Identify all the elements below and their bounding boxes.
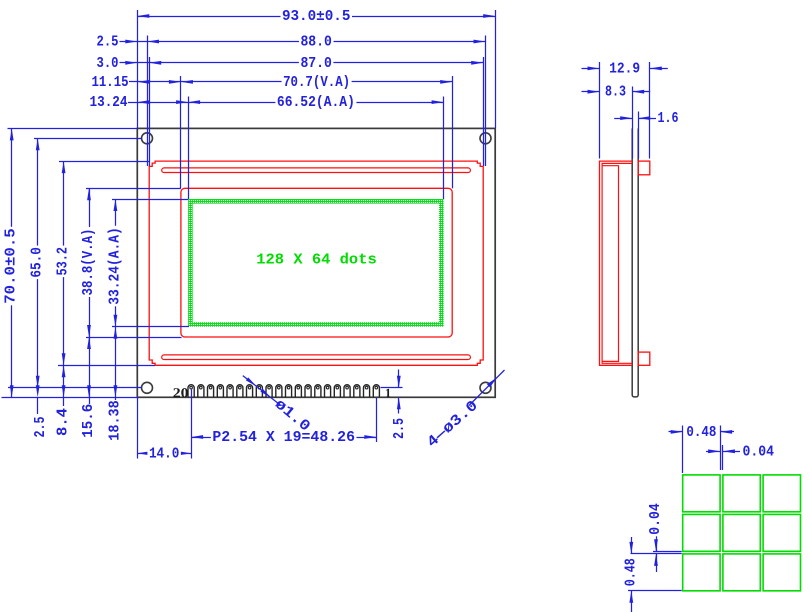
leader 4-dia 3.0 mounting holes — [424, 370, 505, 451]
extension lines left of module — [2, 129, 190, 398]
side view bezel outer profile — [600, 161, 633, 365]
dim 70.0+-0.5 overall height — [3, 128, 20, 397]
side view bezel tab bottom — [638, 352, 650, 365]
pixel detail extension lines left — [628, 552, 682, 591]
dim 2.5 pin offset right — [381, 370, 409, 440]
dim 88.0 hole spacing — [147, 34, 486, 51]
dim 93.0+-0.5 overall width — [137, 8, 495, 25]
viewing area (V.A) opening — [181, 188, 452, 337]
dot matrix pixel detail 3x3 — [683, 475, 801, 591]
dim 11.15 V.A offset — [92, 74, 181, 91]
svg-text:88.0: 88.0 — [300, 34, 332, 51]
dim 18.38 A.A to edge — [106, 327, 123, 441]
dim 0.48 dot width — [669, 424, 735, 441]
dim 33.24 A.A height — [106, 199, 123, 327]
svg-text:53.2: 53.2 — [55, 247, 72, 276]
svg-text:12.9: 12.9 — [609, 60, 640, 77]
dim 66.52 A.A width — [188, 94, 444, 111]
side view bezel lip — [602, 166, 618, 362]
dim P2.54 X 19=48.26 pin row — [191, 429, 376, 446]
leader dia 1.0 pin hole — [243, 376, 314, 436]
dim 53.2 bezel height — [55, 161, 72, 365]
active area (A.A) dotted border — [188, 199, 444, 327]
svg-text:8.3: 8.3 — [605, 84, 626, 101]
svg-text:33.24(A.A): 33.24(A.A) — [106, 227, 123, 305]
dim 12.9 overall thickness — [582, 60, 668, 77]
svg-text:3.0: 3.0 — [97, 55, 119, 72]
pin label 20 — [173, 385, 189, 400]
dim 3.0 bezel offset — [97, 55, 150, 72]
LCD module PCB outline — [137, 128, 495, 397]
svg-text:13.24: 13.24 — [90, 94, 128, 111]
svg-text:11.15: 11.15 — [92, 74, 129, 91]
mounting hole bottom-left — [142, 382, 153, 393]
side view bezel tab top — [638, 161, 650, 175]
svg-text:8.4: 8.4 — [55, 408, 72, 436]
svg-text:14.0: 14.0 — [149, 445, 180, 462]
svg-text:0.48: 0.48 — [622, 558, 639, 586]
svg-text:38.8(V.A): 38.8(V.A) — [80, 229, 97, 296]
display text 128 X 64 dots — [256, 251, 377, 268]
extension lines above module — [138, 10, 496, 199]
pixel detail extension lines top — [683, 426, 723, 474]
dim 2.5 hole offset — [97, 34, 148, 51]
mounting hole bottom-right — [480, 382, 491, 393]
svg-text:0.04: 0.04 — [743, 443, 775, 460]
dim 2.5 bottom hole offset — [32, 385, 49, 437]
svg-text:93.0±0.5: 93.0±0.5 — [282, 8, 351, 25]
side view extension lines — [600, 62, 650, 159]
svg-text:70.7(V.A): 70.7(V.A) — [283, 74, 350, 91]
svg-text:2.5: 2.5 — [97, 34, 119, 51]
dim 1.6 PCB thickness — [614, 110, 678, 127]
svg-text:0.48: 0.48 — [686, 424, 716, 441]
svg-text:66.52(A.A): 66.52(A.A) — [277, 94, 355, 111]
dim 0.48 dot height — [622, 537, 639, 612]
bezel top slot — [162, 168, 471, 173]
dim 14.0 first pin offset — [137, 445, 191, 462]
mounting hole top-left — [142, 133, 153, 144]
pin label 1 — [385, 386, 391, 400]
dim 70.7 V.A width — [181, 74, 452, 91]
side view bezel inner profile — [602, 163, 632, 363]
svg-text:15.6: 15.6 — [80, 404, 97, 438]
dim 38.8 V.A height — [80, 188, 97, 337]
dim 15.6 V.A to edge — [80, 337, 97, 438]
dim 65.0 hole spacing vertical — [29, 138, 46, 387]
dim 13.24 A.A offset — [90, 94, 189, 111]
svg-text:2.5: 2.5 — [391, 418, 408, 439]
svg-text:70.0±0.5: 70.0±0.5 — [3, 228, 20, 304]
connector pin holes 1-20 — [188, 385, 379, 398]
dim 0.04 dot gap horizontal — [706, 443, 774, 460]
svg-text:65.0: 65.0 — [29, 247, 46, 278]
side view PCB edge — [632, 128, 638, 397]
svg-text:2.5: 2.5 — [32, 417, 49, 438]
dim 8.3 frame to PCB — [582, 84, 651, 101]
svg-text:128 X 64 dots: 128 X 64 dots — [256, 251, 377, 268]
extension lines below module — [138, 389, 377, 459]
svg-text:18.38: 18.38 — [106, 400, 123, 441]
svg-text:P2.54 X 19=48.26: P2.54 X 19=48.26 — [212, 429, 355, 446]
dim 8.4 bezel to edge — [55, 365, 72, 436]
dim 87.0 bezel width — [149, 55, 483, 72]
dim 0.04 dot gap vertical — [647, 502, 664, 572]
svg-text:1.6: 1.6 — [658, 110, 679, 127]
metal bezel frame outline — [149, 161, 483, 365]
mounting hole top-right — [480, 133, 491, 144]
svg-text:0.04: 0.04 — [647, 503, 664, 535]
bezel bottom slot — [162, 355, 471, 360]
svg-text:87.0: 87.0 — [300, 55, 332, 72]
svg-text:20: 20 — [173, 385, 189, 400]
